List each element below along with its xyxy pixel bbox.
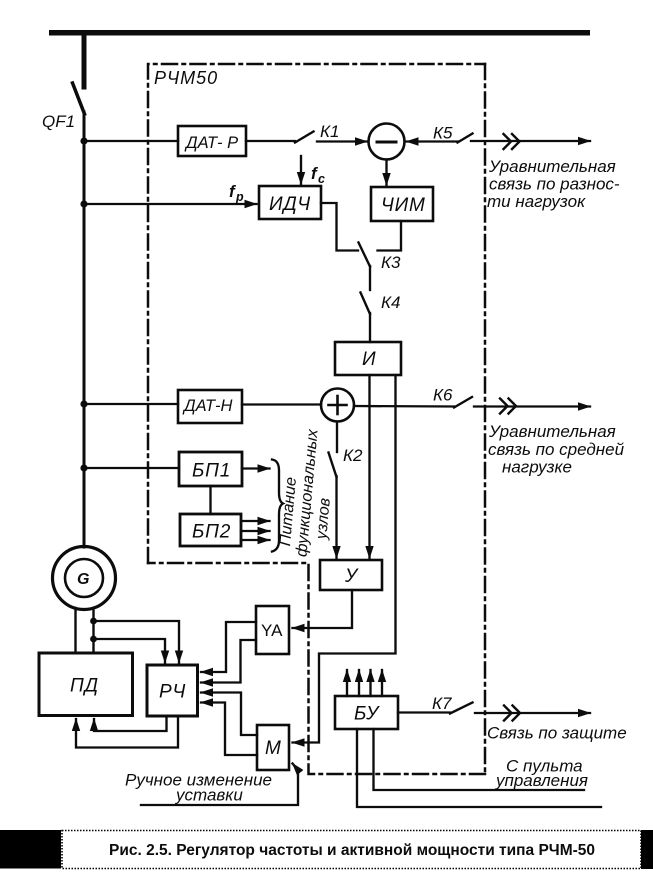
svg-text:ЧИМ: ЧИМ xyxy=(381,195,426,216)
wire К5 into summator xyxy=(407,140,459,142)
chevron link К7 xyxy=(504,706,512,721)
wire ДАТ-Р to К1 xyxy=(246,140,295,142)
node tap ДАТ-Н xyxy=(80,400,87,407)
wire YA out1 to РЧ xyxy=(201,622,256,672)
wire БУ up arrow 3 xyxy=(369,670,371,696)
svg-text:Уравнительная: Уравнительная xyxy=(488,157,616,176)
chevron link К5 xyxy=(504,134,512,149)
chevron link К6 xyxy=(500,399,508,414)
node G tap2 xyxy=(90,636,97,643)
bus bar xyxy=(49,30,590,36)
svg-text:К6: К6 xyxy=(433,386,453,405)
svg-text:К2: К2 xyxy=(343,446,363,465)
svg-text:У: У xyxy=(344,566,359,587)
svg-text:РЧМ50: РЧМ50 xyxy=(154,68,218,88)
block ДАТ-Н xyxy=(178,390,242,423)
svg-text:К1: К1 xyxy=(320,122,339,141)
svg-text:Рис. 2.5. Регулятор частоты и: Рис. 2.5. Регулятор частоты и активной м… xyxy=(109,842,595,859)
svg-text:связь по средней: связь по средней xyxy=(488,440,625,459)
wire К5 external link xyxy=(471,140,590,142)
wire РЧ to ПД 1 xyxy=(94,716,167,731)
wire К4 to И xyxy=(369,313,371,342)
wire БУ to К7 xyxy=(398,711,450,713)
summator minus circle xyxy=(369,124,405,160)
wire bus-to-QF1 xyxy=(82,35,87,87)
wire БП2 power arrow 1 xyxy=(241,520,270,522)
wire БУ up arrow 4 xyxy=(381,670,383,696)
wire ИДЧ to К3 xyxy=(321,203,358,251)
wire К7 external link xyxy=(475,712,590,714)
wire plus to К2 xyxy=(336,422,338,453)
wire К3 to К4 xyxy=(369,266,371,290)
block БУ xyxy=(335,696,398,729)
caption black bar left xyxy=(0,830,61,869)
wire И to М xyxy=(293,375,396,743)
breaker QF1 xyxy=(73,83,85,114)
switch К7 xyxy=(450,703,473,714)
svg-text:БП2: БП2 xyxy=(192,522,231,543)
wire БУ up arrow 1 xyxy=(346,670,348,696)
node tap ДАТ-Р xyxy=(80,137,87,144)
switch К2 xyxy=(329,453,337,478)
block М xyxy=(257,725,289,770)
wire БУ bottom 2 console xyxy=(374,729,585,790)
svg-text:РЧ: РЧ xyxy=(159,682,186,703)
svg-text:ДАТ-Н: ДАТ-Н xyxy=(182,397,233,415)
svg-text:БУ: БУ xyxy=(354,704,380,725)
svg-text:ИДЧ: ИДЧ xyxy=(269,194,311,215)
switch К5 xyxy=(458,134,473,143)
wire БП1 power arrow xyxy=(242,467,270,469)
svg-text:управления: управления xyxy=(495,771,588,790)
caption black bar right xyxy=(641,830,653,869)
generator G outer xyxy=(53,547,116,610)
block У xyxy=(320,560,382,590)
switch К4 xyxy=(361,293,371,315)
wire БП2 power arrow 2 xyxy=(241,530,270,532)
wire ЧИМ to К3 xyxy=(378,221,402,251)
wire tap2 to РЧ xyxy=(94,639,166,663)
wire БУ up arrow 2 xyxy=(358,670,360,696)
svg-text:p: p xyxy=(235,190,244,204)
svg-text:уставки: уставки xyxy=(175,786,243,805)
block И xyxy=(335,342,401,375)
wire К1 to summator xyxy=(317,140,367,142)
block YA xyxy=(256,606,289,654)
wire bus to БП1 xyxy=(84,467,179,469)
wire БП2 power arrow 3 xyxy=(241,539,270,541)
svg-text:нагрузке: нагрузке xyxy=(502,458,572,477)
wire tap1 to РЧ xyxy=(94,621,180,663)
wire bus to ДАТ-Р xyxy=(84,140,178,142)
minus sign xyxy=(377,141,396,144)
wire G lead left xyxy=(74,608,76,653)
svg-text:И: И xyxy=(362,349,376,370)
block ЧИМ xyxy=(371,187,433,221)
wire БУ bottom 1 console xyxy=(357,729,601,807)
svg-text:Уравнительная: Уравнительная xyxy=(488,422,616,441)
svg-text:YA: YA xyxy=(261,621,283,640)
generator G inner xyxy=(65,559,103,597)
svg-text:ти нагрузок: ти нагрузок xyxy=(487,192,586,211)
block РЧ xyxy=(147,665,198,716)
svg-text:К3: К3 xyxy=(381,253,401,272)
svg-text:БП1: БП1 xyxy=(192,461,231,482)
brace power group xyxy=(272,460,283,552)
wire М out1 to РЧ xyxy=(201,693,257,736)
summator plus circle xyxy=(321,389,354,422)
wire YA out2 to РЧ xyxy=(201,640,256,683)
svg-text:c: c xyxy=(318,172,325,186)
wire plus to К6 xyxy=(354,405,454,408)
svg-text:узлов: узлов xyxy=(313,497,334,541)
block БП2 xyxy=(180,514,241,546)
wire main feeder vertical xyxy=(83,112,86,547)
block ИДЧ xyxy=(259,186,321,219)
block БП1 xyxy=(179,452,242,486)
caption box xyxy=(62,831,641,869)
svg-text:К4: К4 xyxy=(381,293,400,312)
wire РЧ to ПД 2 xyxy=(76,716,178,748)
wire manual setpoint to М xyxy=(141,764,298,806)
wire G lead right xyxy=(92,608,94,653)
svg-text:Связь по защите: Связь по защите xyxy=(487,724,627,743)
block ПД xyxy=(39,653,133,716)
svg-text:ПД: ПД xyxy=(70,676,99,697)
wire bus to ИДЧ (fp) xyxy=(84,203,257,205)
wire summator to ЧИМ xyxy=(385,160,387,186)
wire fc input xyxy=(300,156,302,184)
switch К1 xyxy=(295,132,314,143)
node tap БП1 xyxy=(80,464,87,471)
switch К3 xyxy=(359,243,371,267)
wire У to YA xyxy=(293,590,353,628)
wire bus to ДАТ-Н xyxy=(84,403,178,405)
wire БП1-БП2 xyxy=(209,486,211,514)
svg-text:К5: К5 xyxy=(433,124,453,143)
svg-text:G: G xyxy=(77,571,89,588)
wire К6 external link xyxy=(474,405,590,407)
svg-text:М: М xyxy=(265,738,282,759)
node G tap1 xyxy=(90,618,97,625)
switch К6 xyxy=(454,397,472,408)
svg-text:К7: К7 xyxy=(432,694,452,713)
wire К2 to У xyxy=(335,476,337,558)
svg-text:ДАТ- Р: ДАТ- Р xyxy=(184,134,238,152)
boundary РЧМ50 dash-dot frame xyxy=(148,64,485,774)
svg-text:QF1: QF1 xyxy=(42,112,75,131)
wire ДАТ-Н to summator plus xyxy=(242,403,321,405)
svg-text:связь по разнос-: связь по разнос- xyxy=(489,175,620,194)
plus sign xyxy=(329,404,347,407)
wire М out2 to РЧ xyxy=(201,703,257,756)
node tap fp xyxy=(80,200,87,207)
block ДАТ-Р xyxy=(178,126,246,156)
wire И to У xyxy=(368,375,370,558)
